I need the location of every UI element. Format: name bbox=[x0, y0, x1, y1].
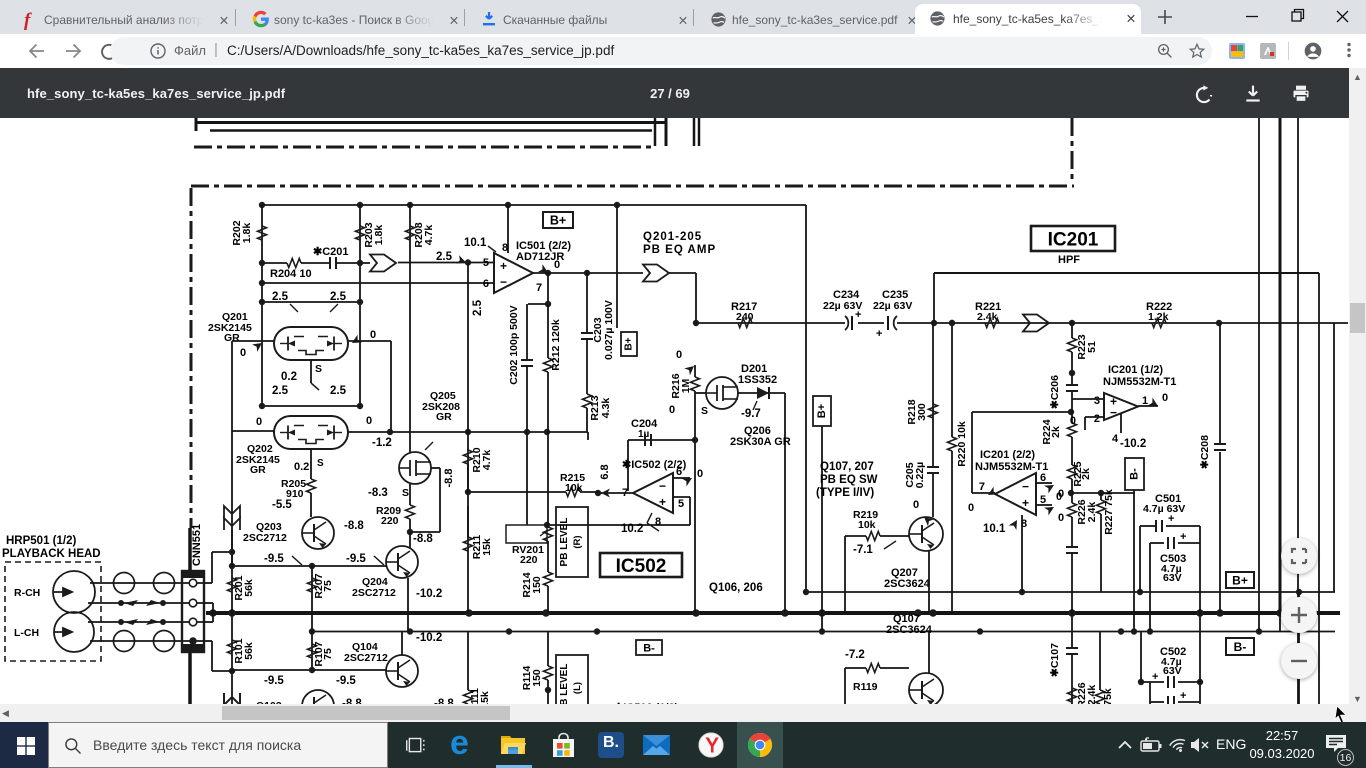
svg-text:0: 0 bbox=[366, 415, 372, 427]
svg-text:-10.2: -10.2 bbox=[1120, 438, 1146, 450]
svg-text:+: + bbox=[1022, 496, 1029, 510]
svg-text:15k: 15k bbox=[479, 691, 491, 704]
svg-text:−: − bbox=[659, 479, 666, 493]
svg-text:IC201: IC201 bbox=[1048, 229, 1099, 250]
svg-text:NJM5532M-T1: NJM5532M-T1 bbox=[975, 461, 1048, 473]
svg-text:220: 220 bbox=[381, 515, 399, 527]
svg-text:2SC3624: 2SC3624 bbox=[884, 578, 931, 590]
svg-text:51: 51 bbox=[1086, 341, 1098, 353]
svg-text:-9.5: -9.5 bbox=[264, 675, 284, 687]
svg-text:-8.8: -8.8 bbox=[344, 520, 364, 532]
svg-text:1µ: 1µ bbox=[638, 429, 650, 440]
svg-text:2.5: 2.5 bbox=[472, 299, 484, 316]
svg-text:63V: 63V bbox=[1163, 665, 1182, 677]
svg-text:+: + bbox=[659, 495, 666, 509]
svg-text:(L): (L) bbox=[572, 682, 583, 694]
svg-text:15k: 15k bbox=[481, 538, 493, 556]
svg-text:2: 2 bbox=[1094, 413, 1100, 425]
svg-text:2SC2712: 2SC2712 bbox=[352, 587, 396, 599]
svg-text:L-CH: L-CH bbox=[14, 627, 39, 639]
svg-text:2SC3624: 2SC3624 bbox=[886, 624, 933, 636]
svg-text:300: 300 bbox=[916, 403, 928, 421]
svg-text:0: 0 bbox=[1070, 415, 1076, 427]
svg-text:-10.2: -10.2 bbox=[416, 632, 442, 644]
svg-text:S: S bbox=[317, 458, 324, 469]
svg-text:Q107, 207: Q107, 207 bbox=[820, 461, 874, 473]
svg-text:0: 0 bbox=[370, 329, 376, 341]
svg-text:Q201-205: Q201-205 bbox=[643, 231, 702, 243]
svg-text:2.5: 2.5 bbox=[436, 251, 453, 263]
svg-text:-9.7: -9.7 bbox=[741, 408, 761, 420]
svg-text:2k: 2k bbox=[1080, 468, 1092, 480]
svg-text:B-: B- bbox=[1128, 468, 1140, 480]
svg-text:−: − bbox=[500, 275, 507, 289]
svg-text:S: S bbox=[315, 363, 322, 375]
svg-text:IC201 (1/2): IC201 (1/2) bbox=[1108, 364, 1163, 376]
svg-text:-9.5: -9.5 bbox=[346, 553, 366, 565]
svg-text:✱C107: ✱C107 bbox=[1049, 643, 1061, 677]
svg-text:HPF: HPF bbox=[1058, 254, 1080, 266]
svg-text:4.3k: 4.3k bbox=[600, 398, 612, 419]
svg-text:0: 0 bbox=[256, 416, 262, 428]
svg-text:-7.1: -7.1 bbox=[853, 544, 873, 556]
svg-text:R212 120k: R212 120k bbox=[550, 319, 562, 371]
svg-text:+: + bbox=[1152, 671, 1158, 683]
svg-text:S: S bbox=[701, 405, 708, 417]
svg-text:0: 0 bbox=[697, 468, 703, 480]
svg-text:-8.3: -8.3 bbox=[368, 487, 388, 499]
svg-text:1M: 1M bbox=[680, 378, 692, 393]
svg-text:8: 8 bbox=[655, 516, 661, 528]
svg-text:-1.2: -1.2 bbox=[372, 437, 392, 449]
svg-text:(R): (R) bbox=[572, 535, 583, 548]
svg-text:4.7k: 4.7k bbox=[481, 450, 493, 471]
svg-text:10k: 10k bbox=[565, 482, 583, 494]
svg-text:220: 220 bbox=[520, 554, 538, 566]
svg-text:PB EQ SW: PB EQ SW bbox=[820, 474, 878, 486]
svg-text:4.7µ 63V: 4.7µ 63V bbox=[1143, 503, 1185, 515]
svg-text:B+: B+ bbox=[1232, 573, 1248, 587]
svg-text:-9.5: -9.5 bbox=[264, 553, 284, 565]
svg-text:S: S bbox=[402, 487, 409, 499]
svg-text:5: 5 bbox=[483, 257, 489, 269]
svg-text:-10.2: -10.2 bbox=[416, 588, 442, 600]
svg-text:6: 6 bbox=[483, 278, 489, 290]
svg-text:0: 0 bbox=[968, 502, 974, 514]
svg-text:150: 150 bbox=[531, 669, 543, 687]
svg-text:2SK30A GR: 2SK30A GR bbox=[730, 436, 791, 448]
svg-text:PLAYBACK HEAD: PLAYBACK HEAD bbox=[2, 548, 101, 560]
svg-text:5: 5 bbox=[678, 498, 684, 510]
svg-text:0: 0 bbox=[1162, 392, 1168, 404]
svg-text:4: 4 bbox=[1112, 433, 1119, 445]
svg-text:63V: 63V bbox=[1163, 572, 1182, 584]
svg-text:1.8k: 1.8k bbox=[241, 223, 253, 244]
svg-text:B-: B- bbox=[643, 642, 655, 654]
svg-text:C202 100p 500V: C202 100p 500V bbox=[508, 305, 520, 384]
svg-text:GR: GR bbox=[250, 464, 266, 476]
svg-text:0.2: 0.2 bbox=[294, 461, 309, 473]
svg-text:−: − bbox=[1022, 479, 1029, 493]
svg-text:✱C206: ✱C206 bbox=[1049, 375, 1061, 409]
svg-text:0: 0 bbox=[913, 499, 919, 511]
svg-text:4.7k: 4.7k bbox=[423, 225, 435, 246]
svg-text:7: 7 bbox=[979, 481, 985, 493]
svg-text:HRP501 (1/2): HRP501 (1/2) bbox=[6, 535, 76, 547]
svg-text:CNN551: CNN551 bbox=[191, 524, 203, 566]
svg-text:B+: B+ bbox=[816, 404, 828, 418]
svg-text:0.027µ 100V: 0.027µ 100V bbox=[603, 300, 615, 360]
svg-text:0: 0 bbox=[1056, 491, 1062, 503]
svg-text:56k: 56k bbox=[243, 579, 255, 597]
svg-text:1SS352: 1SS352 bbox=[738, 374, 777, 386]
svg-text:2.5: 2.5 bbox=[272, 291, 289, 303]
svg-text:10k: 10k bbox=[858, 519, 876, 531]
svg-text:IC502: IC502 bbox=[616, 556, 667, 577]
svg-text:10.1: 10.1 bbox=[464, 237, 487, 249]
svg-text:+: + bbox=[500, 259, 507, 273]
svg-text:75: 75 bbox=[322, 648, 334, 660]
svg-text:2.5: 2.5 bbox=[330, 385, 347, 397]
svg-text:✱C201: ✱C201 bbox=[313, 246, 349, 258]
svg-text:B+: B+ bbox=[624, 337, 635, 350]
svg-text:2SC2712: 2SC2712 bbox=[344, 652, 388, 664]
svg-text:6.8: 6.8 bbox=[599, 464, 611, 479]
svg-text:-5.5: -5.5 bbox=[272, 499, 292, 511]
svg-text:10.2: 10.2 bbox=[621, 523, 643, 535]
svg-text:0: 0 bbox=[554, 259, 560, 271]
svg-text:0: 0 bbox=[676, 349, 682, 361]
svg-text:150: 150 bbox=[531, 576, 543, 594]
svg-text:B-: B- bbox=[1234, 640, 1247, 654]
svg-text:−: − bbox=[1110, 405, 1117, 419]
svg-text:56k: 56k bbox=[243, 642, 255, 660]
svg-text:75: 75 bbox=[322, 580, 334, 592]
svg-text:R119: R119 bbox=[853, 681, 878, 693]
svg-text:R-CH: R-CH bbox=[14, 587, 40, 599]
svg-text:2k: 2k bbox=[1050, 426, 1062, 438]
svg-text:-7.2: -7.2 bbox=[845, 649, 865, 661]
svg-text:0: 0 bbox=[1058, 512, 1064, 524]
svg-text:1.8k: 1.8k bbox=[373, 225, 385, 246]
svg-text:B+: B+ bbox=[550, 214, 566, 228]
svg-text:2SC2712: 2SC2712 bbox=[243, 532, 287, 544]
svg-text:2.4k: 2.4k bbox=[977, 311, 998, 323]
svg-text:2.5: 2.5 bbox=[272, 385, 289, 397]
svg-text:8: 8 bbox=[502, 242, 508, 254]
svg-text:PB EQ AMP: PB EQ AMP bbox=[643, 244, 716, 256]
svg-text:GR: GR bbox=[436, 411, 452, 423]
svg-text:75k: 75k bbox=[1102, 688, 1114, 704]
svg-text:✱C208: ✱C208 bbox=[1199, 435, 1211, 469]
svg-text:+: + bbox=[1180, 690, 1186, 702]
svg-text:PB LEVEL: PB LEVEL bbox=[559, 518, 570, 567]
svg-text:R204 10: R204 10 bbox=[270, 268, 312, 280]
svg-text:Q106, 206: Q106, 206 bbox=[709, 582, 763, 594]
svg-text:7: 7 bbox=[536, 282, 542, 294]
svg-text:PB LEVEL: PB LEVEL bbox=[559, 664, 570, 704]
svg-text:IC201 (2/2): IC201 (2/2) bbox=[980, 449, 1035, 461]
svg-text:R227 75k: R227 75k bbox=[1103, 489, 1115, 535]
svg-text:+: + bbox=[1168, 513, 1174, 525]
svg-text:0: 0 bbox=[669, 404, 675, 416]
svg-text:10.1: 10.1 bbox=[983, 523, 1006, 535]
svg-text:22µ 63V: 22µ 63V bbox=[873, 300, 912, 312]
svg-text:3: 3 bbox=[1094, 395, 1100, 407]
svg-text:R220 10k: R220 10k bbox=[956, 421, 968, 467]
svg-text:(TYPE I/IV): (TYPE I/IV) bbox=[816, 487, 874, 499]
svg-text:+: + bbox=[876, 328, 882, 340]
svg-text:0.2: 0.2 bbox=[281, 371, 297, 383]
svg-text:+: + bbox=[1180, 531, 1186, 543]
svg-text:6: 6 bbox=[676, 466, 682, 478]
svg-text:0.22µ: 0.22µ bbox=[914, 462, 926, 489]
svg-text:2.5: 2.5 bbox=[330, 291, 347, 303]
svg-text:-8.8: -8.8 bbox=[413, 533, 433, 545]
svg-text:-8.8: -8.8 bbox=[443, 469, 455, 488]
svg-text:-9.5: -9.5 bbox=[336, 675, 356, 687]
svg-text:+: + bbox=[855, 309, 861, 321]
svg-text:0: 0 bbox=[240, 347, 246, 359]
svg-text:NJM5532M-T1: NJM5532M-T1 bbox=[1103, 376, 1176, 388]
